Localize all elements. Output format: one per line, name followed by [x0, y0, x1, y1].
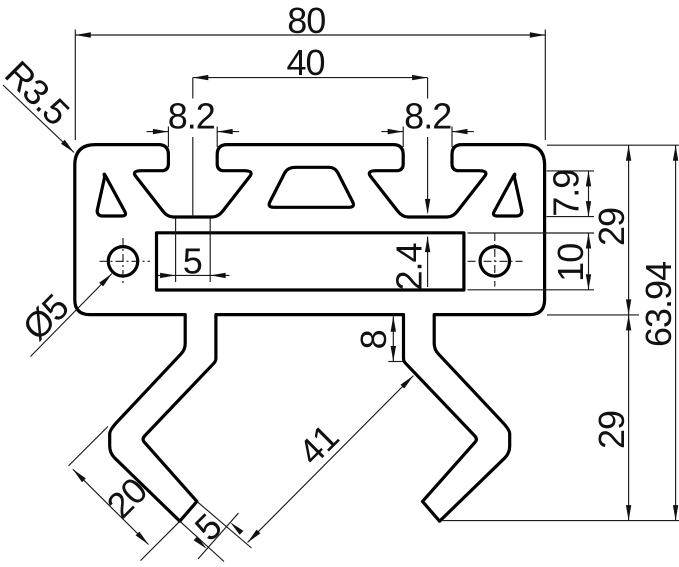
svg-text:8: 8	[353, 330, 394, 349]
svg-text:5: 5	[183, 241, 202, 282]
svg-text:40: 40	[286, 42, 324, 83]
svg-text:63.94: 63.94	[638, 262, 679, 347]
svg-text:7.9: 7.9	[545, 170, 586, 217]
svg-text:10: 10	[550, 244, 591, 282]
svg-text:80: 80	[287, 0, 325, 41]
svg-text:2.4: 2.4	[389, 243, 430, 290]
svg-text:8.2: 8.2	[404, 95, 451, 136]
svg-text:8.2: 8.2	[168, 95, 215, 136]
svg-text:29: 29	[591, 411, 632, 449]
svg-text:29: 29	[591, 208, 632, 246]
